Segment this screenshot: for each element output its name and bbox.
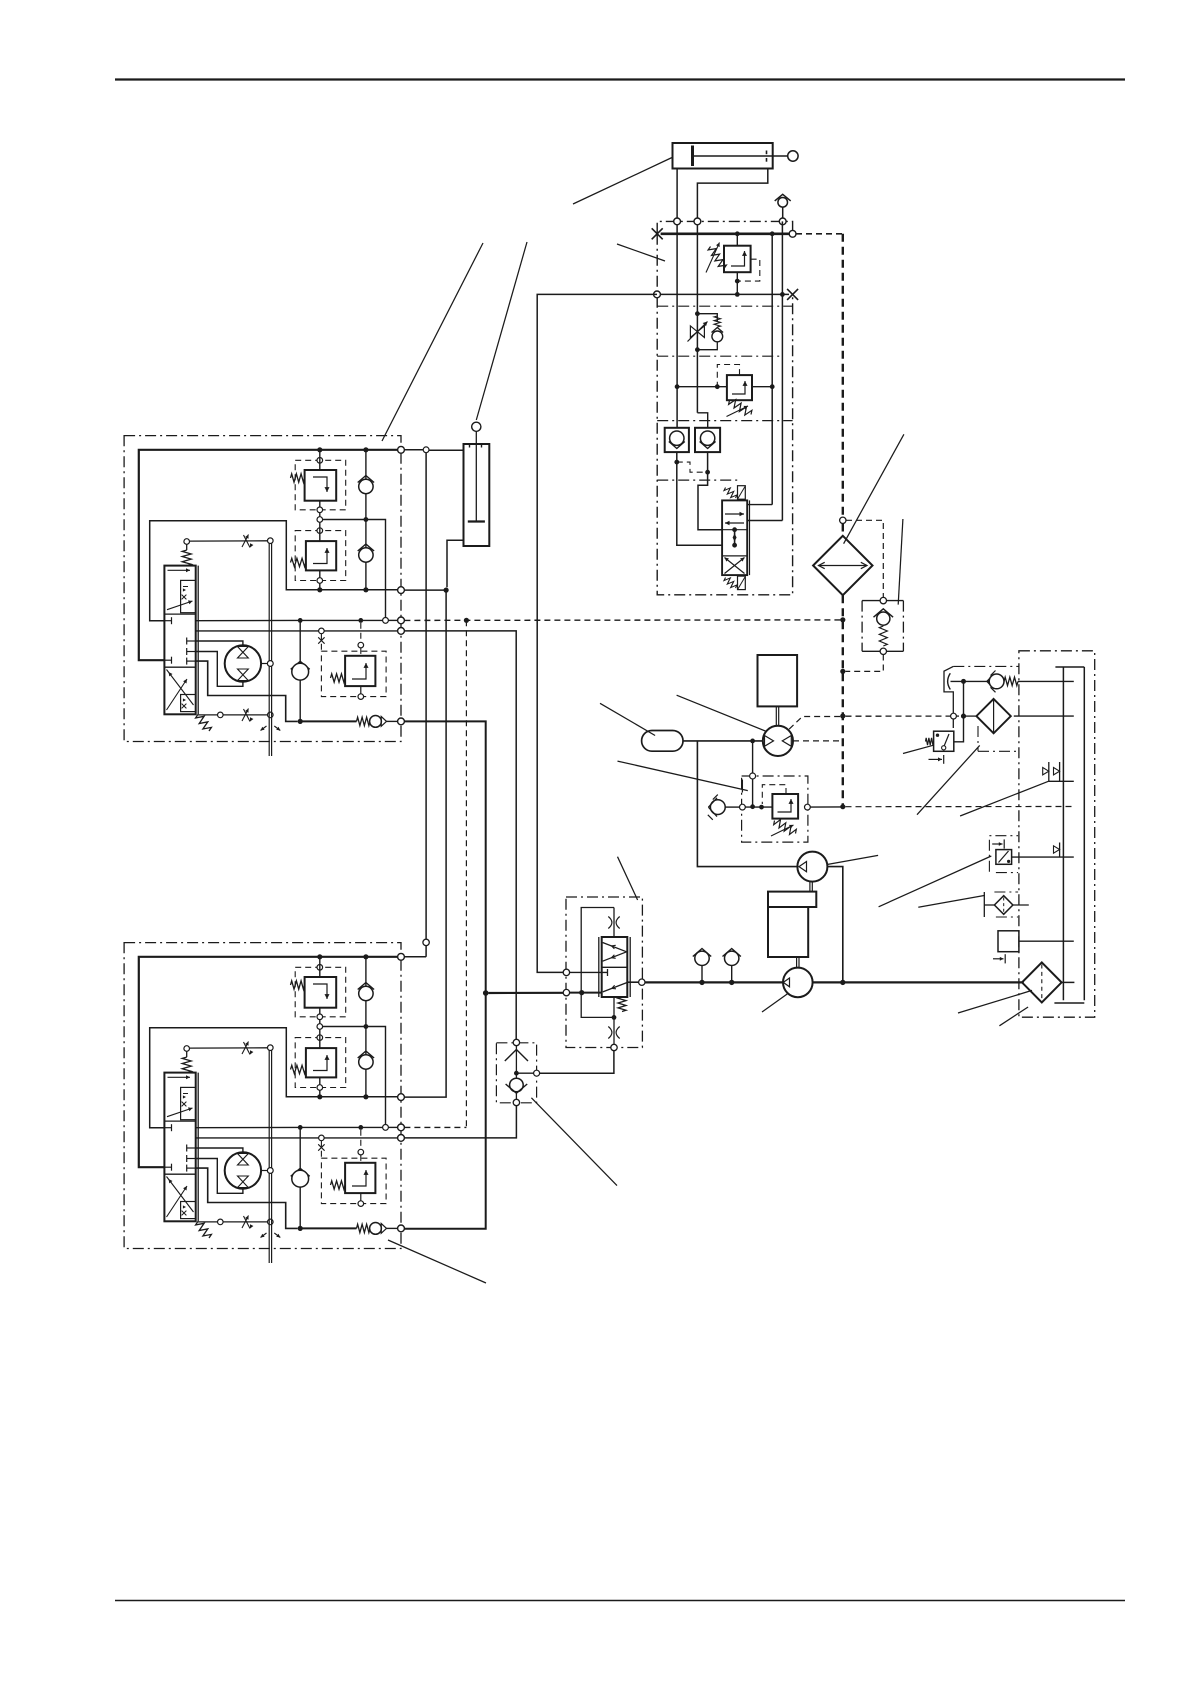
pilot line top M2 [186, 1051, 188, 1057]
check valve CE M2 [357, 1223, 398, 1235]
port circle T2 M2 [398, 1094, 405, 1101]
port circle T3 M1 [398, 617, 405, 624]
pump motor PM (hand pump) [763, 726, 793, 756]
check valve CD M1 [291, 620, 310, 721]
suction port notch [944, 666, 953, 728]
leader to hoist cylinder [573, 158, 672, 205]
plugged port X2 [787, 289, 798, 300]
valve bottom spring M2 [196, 1221, 212, 1238]
wire accumulator to pump motor [683, 740, 763, 742]
small filter F2 [984, 892, 1029, 917]
accumulator ACC [642, 731, 683, 752]
wire charge pump out [827, 867, 842, 983]
port circle P4 [789, 230, 796, 237]
suction sub-box dash-dot [953, 665, 1019, 667]
breather check BR1 [693, 949, 711, 983]
wire right rail A [771, 234, 773, 505]
return filter F1 [976, 699, 1073, 733]
wire cylinder head side [676, 169, 678, 222]
return check pair markers [1043, 762, 1074, 781]
port circle P5 [654, 291, 661, 298]
wire pressure tie [404, 449, 423, 451]
main pump MP [783, 968, 813, 998]
leader to pilot valve block [618, 857, 638, 900]
check valve CF M1 [358, 450, 374, 522]
wire PV feed left [489, 992, 564, 994]
pilot row dashed line M1 [295, 619, 383, 621]
leader to motor assembly 1 [382, 243, 483, 441]
relief valve RA M2 [291, 959, 346, 1024]
wire return tie [404, 721, 485, 993]
dashed pilot into filter [846, 715, 951, 717]
wire cylinder port line B [696, 225, 698, 413]
manifold inner partition 1 [657, 305, 792, 307]
wire PC1 output [677, 452, 722, 545]
manifold inner partition 2 [657, 355, 783, 357]
motor assembly block M1 boundary [124, 436, 401, 742]
leader to return filter [958, 990, 1032, 1013]
wire right rail B [781, 221, 783, 520]
wire cylinder rod side [697, 169, 767, 222]
tank rail A [1062, 667, 1064, 1000]
wire solenoid valve out [1012, 856, 1074, 858]
wire return rail to left [537, 294, 657, 972]
valve bottom spring M1 [196, 714, 212, 731]
engine box [768, 892, 816, 957]
port circle PV right [639, 979, 645, 985]
hydraulic motor HM M2 [225, 1152, 261, 1188]
pilot line top M1 [186, 544, 188, 550]
air bleed check valve B1 [775, 194, 791, 221]
dashed pump motor pilot A [789, 717, 843, 730]
port circle PV left A [563, 969, 569, 975]
tank box TB1 [758, 655, 798, 706]
tank block boundary [1019, 651, 1095, 1017]
directional valve DV M2 [164, 1073, 198, 1222]
pressure loop line 1 M2 [139, 957, 401, 1167]
leader to pump motor [677, 695, 767, 731]
pressure loop line 2 M2 [150, 1028, 398, 1128]
relief valve RA M1 [291, 452, 346, 517]
pilot check valve PC1 [665, 428, 689, 452]
solenoid drain valve SV [989, 836, 1018, 873]
port circle T4 M2 [398, 1135, 405, 1142]
leader to solenoid valve [879, 856, 992, 907]
port circle T4 M1 [398, 628, 405, 635]
wire motor port A M1 [196, 641, 243, 645]
main return filter F3 [1022, 962, 1074, 1002]
return bottom line M2 [300, 1227, 356, 1229]
relief valve RB M1 [291, 517, 346, 590]
leader to heat exchanger [844, 434, 904, 543]
pilot link dashes [677, 462, 708, 472]
drain arrows M2 [261, 1233, 267, 1238]
leader to charge pump [826, 855, 878, 864]
wire regulator to pilot main [810, 806, 843, 808]
check valve CG M1 [358, 520, 374, 590]
wire charge pump suction [697, 741, 797, 867]
thick dashed pilot main lower [842, 595, 844, 807]
motor assembly block M2 boundary [124, 943, 401, 1249]
check valve box CB1 [862, 597, 903, 654]
brake cylinder C2 [464, 422, 490, 546]
PV bottom line [613, 997, 615, 1044]
case drain double line M1 [268, 544, 270, 757]
breather check BR2 [723, 949, 741, 983]
port circle P1 [674, 218, 681, 225]
wire cylinder port line A [676, 225, 678, 428]
leader to small filter [918, 895, 985, 907]
hydraulic motor HM M1 [225, 645, 261, 681]
shutoff box SB [993, 931, 1074, 964]
bypass check valve CVb [697, 314, 723, 350]
drain arrows M1 [261, 726, 267, 731]
pilot valve block boundary [566, 897, 642, 1048]
pilot check valve PC2 [695, 428, 720, 452]
pilot row dashed line M2 [295, 1126, 383, 1128]
crossover link M1 [323, 520, 386, 618]
leader to shuttle check box [531, 1098, 617, 1186]
bottom rule [115, 1600, 1125, 1602]
wire CBX side to pilot block [540, 1051, 614, 1074]
drain check box CBX [496, 1039, 539, 1105]
wire relief row [677, 386, 727, 388]
junction circle M1 [317, 517, 323, 523]
wire brake cylinder feed [429, 449, 464, 451]
port circle T5 M2 [398, 1225, 405, 1232]
check valve CG M2 [358, 1027, 374, 1097]
manifold inner partition 3 [657, 420, 792, 422]
suction port bracket [948, 673, 951, 689]
junction circle pressure tie [423, 447, 429, 453]
wire DV1 port B [747, 520, 782, 522]
leader to pressure switch [903, 745, 933, 753]
solenoid check marker [1054, 843, 1060, 858]
dashed pilot to right block [846, 806, 1073, 808]
wire check-filter tie [954, 681, 964, 741]
wire PV output [627, 981, 638, 983]
port circle P2 [694, 218, 701, 225]
leader to main pump [762, 992, 790, 1012]
wire brake cylinder tie [404, 589, 446, 591]
wire brake port line [447, 540, 464, 587]
valve top spring M1 [182, 550, 191, 566]
wire motor port A M2 [196, 1148, 243, 1152]
dashed pilot stub from manifold [796, 233, 843, 235]
port circle PV bottom [611, 1044, 617, 1050]
check valve CF M2 [358, 957, 374, 1029]
wire CBX bottom to lower block [404, 1106, 516, 1138]
port circle PV left B [563, 989, 569, 995]
relief valve RV2 [715, 365, 752, 417]
pilot junction circle [840, 517, 846, 523]
shaft engine to charge pump [809, 882, 811, 892]
leader to suction sub-box [917, 745, 980, 814]
wire shuttle line upper [404, 631, 516, 1039]
tank rail top connector [1055, 666, 1084, 668]
crossover link M2 [323, 1027, 386, 1125]
plugged port X1 [652, 228, 663, 239]
port circle P3 [779, 218, 786, 225]
shaft tank to pump motor [775, 706, 777, 725]
wire charge branch vertical [752, 741, 754, 773]
drain row line M1 [196, 619, 295, 621]
relief valve RC M2 [318, 1130, 386, 1207]
leader to check valve box [898, 519, 903, 605]
port circle T5 M1 [398, 718, 405, 725]
port circle T1 M1 [398, 446, 405, 453]
junction circle M2 [317, 1024, 323, 1030]
leader to accumulator [600, 703, 655, 735]
pressure switch PS [926, 731, 954, 764]
wire motor port B M2 [196, 1159, 243, 1194]
top rule [115, 78, 1125, 80]
leader to control manifold [617, 244, 665, 261]
port circle T1 M2 [398, 953, 405, 960]
return bottom line M1 [300, 720, 356, 722]
throttle valve T1 [688, 322, 708, 342]
wire PC2 output [698, 452, 722, 530]
pressure regulator PR [762, 785, 798, 836]
motor shaft line M1 [261, 663, 267, 665]
wire motor drain M2 [196, 1168, 298, 1228]
manifold return rail [660, 293, 789, 295]
leader to return checks [960, 781, 1048, 816]
pressure loop line 2 M1 [150, 521, 398, 621]
wire PV pilot A [570, 971, 608, 973]
wire pressure tie into lower block [425, 946, 427, 957]
leader to tank box [999, 1007, 1028, 1026]
pilot line bottom M1 [198, 714, 218, 716]
charge pump CP [797, 852, 827, 882]
wire DV1 port A [747, 504, 772, 506]
solenoid valve DV1 [722, 486, 749, 590]
relief valve RV1 [706, 234, 760, 295]
case drain double line M2 [268, 1051, 270, 1264]
wire bypass to PC2 [697, 413, 707, 428]
motor shaft line M2 [261, 1170, 267, 1172]
tank rail B [1083, 667, 1085, 1000]
port circle T3 M2 [398, 1124, 405, 1131]
thick dashed pilot main upper [842, 234, 844, 517]
port circle lower block top [423, 939, 429, 945]
wire motor port B M1 [196, 652, 243, 687]
heat exchanger HX1 [813, 536, 872, 595]
pilot line bottom M2 [198, 1221, 218, 1223]
PV spring [618, 997, 626, 1012]
dashed pilot tie [404, 619, 842, 622]
drain row line M2 [196, 1126, 295, 1128]
port circle T2 M1 [398, 587, 405, 594]
check valve CE M1 [357, 716, 398, 728]
leader to brake cylinder [476, 242, 527, 420]
suction check valve CVs [708, 795, 725, 820]
directional valve DV M1 [164, 566, 198, 715]
valve top spring M2 [182, 1057, 191, 1073]
relief valve RC M1 [318, 623, 386, 700]
tank rail bottom connector [1054, 1002, 1084, 1004]
main suction line [642, 981, 783, 983]
wire motor drain M1 [196, 661, 298, 721]
PV bypass loop [581, 908, 614, 1018]
PV top restrictor [613, 908, 615, 938]
manifold supply rail [661, 233, 790, 236]
regulator box boundary [742, 776, 808, 842]
dashed pump motor pilot B [793, 740, 843, 742]
pressure loop line 1 M1 [139, 450, 401, 660]
control manifold boundary [657, 221, 792, 233]
dashed CB1 bottom pipe [846, 655, 884, 672]
leader to motor assembly 2 [388, 1240, 486, 1283]
return check valve RC1 [951, 671, 1074, 693]
relief valve RB M2 [291, 1024, 346, 1097]
dashed CB1 top pipe [846, 520, 883, 597]
leader to regulator with tick [618, 761, 748, 792]
pilot valve PV [599, 937, 630, 997]
manifold inner partition 4 [657, 479, 740, 481]
check valve CD M2 [291, 1127, 310, 1228]
hoist cylinder C1 [673, 143, 799, 169]
shaft engine to main pump [796, 957, 798, 968]
wire PV pilot B [570, 992, 602, 994]
wire regulator row [725, 806, 739, 808]
